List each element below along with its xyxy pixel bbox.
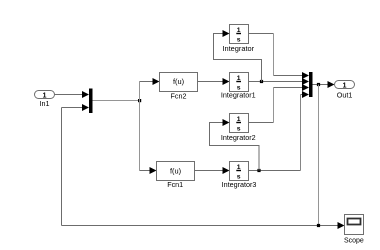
svg-text:1: 1 xyxy=(237,116,241,123)
block Integrator (top) xyxy=(222,25,254,54)
arrowhead into mux input2 xyxy=(302,78,309,85)
svg-text:1: 1 xyxy=(237,75,241,82)
node junction B xyxy=(260,80,263,83)
svg-text:1: 1 xyxy=(237,164,241,171)
node junction E xyxy=(317,224,320,227)
arrowhead into Integrator2 xyxy=(223,119,230,126)
arrowhead into Integrator xyxy=(223,30,230,37)
wire junction C to Integrator2 input xyxy=(210,123,260,171)
arrowhead into Fcn2 xyxy=(153,78,160,85)
mux M2 (right) xyxy=(309,72,313,97)
svg-text:Scope: Scope xyxy=(344,238,364,245)
svg-text:In1: In1 xyxy=(40,99,50,108)
svg-text:f(u): f(u) xyxy=(170,166,181,175)
block Fcn2 xyxy=(160,73,198,101)
arrowhead into mux input4 xyxy=(302,91,309,98)
node junction C xyxy=(257,169,260,172)
node junction A xyxy=(138,99,141,102)
svg-text:Fcn2: Fcn2 xyxy=(171,91,187,100)
arrowhead into Scope xyxy=(338,222,345,229)
block Integrator2 xyxy=(221,114,256,143)
wire Fcn2 to Integrator1 xyxy=(198,81,224,83)
arrowhead into Out1 xyxy=(328,81,335,88)
arrowhead into mux input1 xyxy=(82,91,89,98)
wire junction to Fcn2 xyxy=(139,82,141,101)
arrowhead into Integrator3 xyxy=(223,167,230,174)
svg-text:s: s xyxy=(237,126,241,133)
block Integrator3 xyxy=(222,162,257,190)
block Integrator1 xyxy=(221,73,256,100)
node junction D xyxy=(317,83,320,86)
scope block xyxy=(344,215,364,245)
wire Integrator2 output to mux input3 xyxy=(249,122,274,124)
svg-text:Integrator2: Integrator2 xyxy=(221,133,256,142)
arrowhead into mux input2 xyxy=(82,104,89,111)
wire mux output to junction xyxy=(93,100,140,102)
wire Integrator output to mux input1 xyxy=(249,33,274,35)
inport In1 xyxy=(35,90,55,108)
wire Integrator3 output to mux input4 xyxy=(249,170,301,172)
svg-text:1: 1 xyxy=(343,80,347,89)
arrowhead into mux input3 xyxy=(302,84,309,91)
svg-text:1: 1 xyxy=(237,27,241,34)
wire feedback junction B to Integrator input xyxy=(214,34,262,82)
svg-text:Integrator3: Integrator3 xyxy=(222,180,257,189)
svg-text:Integrator: Integrator xyxy=(222,44,254,53)
block Fcn1 xyxy=(157,162,195,190)
wire Fcn1 to Integrator3 xyxy=(195,170,224,172)
wire In1 to mux xyxy=(55,94,84,96)
wire Integrator1 output to mux input2 xyxy=(249,81,304,83)
arrowhead into Integrator1 xyxy=(223,78,230,85)
mux M1 (left) xyxy=(89,89,93,114)
wire feedback into mux input2 xyxy=(62,108,339,226)
arrowhead into Fcn1 xyxy=(150,167,157,174)
wire mux2 output to Out1 xyxy=(313,84,329,86)
svg-text:Out1: Out1 xyxy=(337,91,353,100)
wire junction to Fcn1 xyxy=(139,101,141,171)
svg-text:Integrator1: Integrator1 xyxy=(221,91,256,100)
wire junction D down to bottom feedback xyxy=(318,85,320,226)
svg-text:Fcn1: Fcn1 xyxy=(167,180,183,189)
svg-text:s: s xyxy=(237,37,241,44)
svg-text:f(u): f(u) xyxy=(173,77,184,86)
arrowhead into mux input1 xyxy=(302,72,309,79)
outport Out1 xyxy=(335,80,355,99)
